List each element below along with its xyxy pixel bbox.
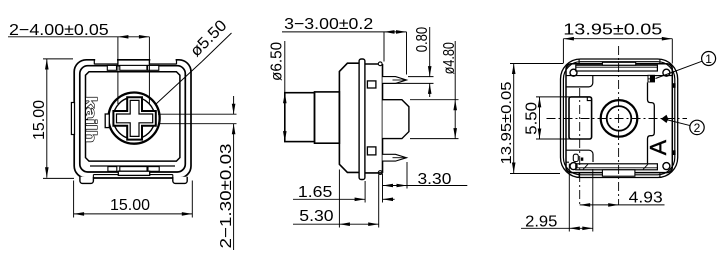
svg-text:4.93: 4.93	[629, 190, 663, 207]
svg-text:15.00: 15.00	[31, 100, 48, 140]
svg-text:13.95±0.05: 13.95±0.05	[563, 22, 662, 39]
svg-text:3−3.00±0.2: 3−3.00±0.2	[284, 16, 373, 33]
svg-text:0.80: 0.80	[414, 27, 431, 53]
svg-text:13.95±0.05: 13.95±0.05	[499, 82, 515, 165]
svg-text:2: 2	[694, 121, 701, 135]
svg-text:2−1.30±0.03: 2−1.30±0.03	[218, 143, 235, 248]
svg-text:A: A	[645, 139, 671, 155]
svg-text:kailh: kailh	[82, 96, 98, 143]
svg-text:15.00: 15.00	[110, 197, 150, 214]
svg-text:1.65: 1.65	[298, 184, 333, 201]
svg-text:ø6.50: ø6.50	[268, 42, 285, 81]
svg-text:5.30: 5.30	[299, 208, 333, 225]
svg-text:1: 1	[705, 52, 712, 66]
